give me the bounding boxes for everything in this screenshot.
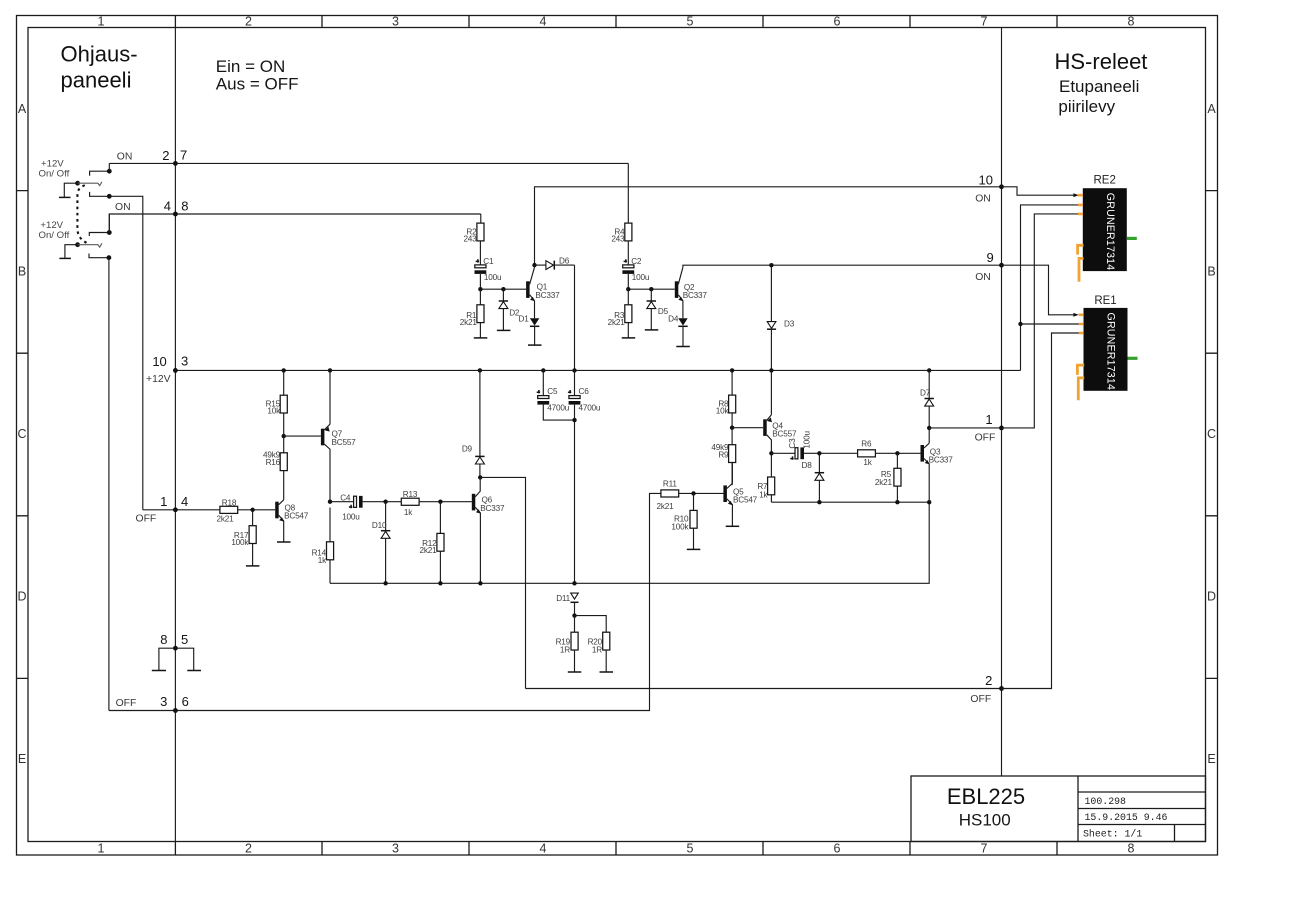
ground bar R17 (246, 565, 260, 567)
wire R2 top from net 4/8 (480, 214, 482, 223)
resistor R9 (729, 428, 736, 486)
junction net3/6 at connector (173, 708, 178, 713)
junction D5 tap (649, 287, 653, 291)
wire Q2 collector to net RE-ON-9 (683, 265, 1002, 267)
resistor R13 (386, 498, 472, 505)
diode D9 (475, 370, 484, 477)
transistor Q8 BC547 (275, 500, 284, 542)
svg-text:10k: 10k (267, 407, 281, 416)
junction rail C5 (541, 368, 545, 372)
switch S1 lower contact (90, 192, 110, 196)
svg-text:BC337: BC337 (480, 504, 505, 513)
transistor Q5 BC547 (723, 463, 732, 527)
resistor R12 (437, 502, 444, 584)
junction net10/3 at connector (173, 368, 178, 373)
svg-text:ON: ON (975, 272, 991, 283)
resistor R2 (477, 223, 484, 241)
svg-text:6: 6 (182, 694, 189, 709)
switch S1 blade tip tick (98, 182, 102, 186)
junction D3 on net 9 (769, 263, 773, 267)
diode D2 (499, 289, 508, 330)
svg-text:6: 6 (834, 15, 841, 29)
svg-text:Sheet: 1/1: Sheet: 1/1 (1083, 829, 1142, 840)
ground bar Q8 emitter (277, 541, 291, 543)
svg-text:8: 8 (160, 632, 167, 647)
svg-text:GRUNER17314: GRUNER17314 (1105, 313, 1117, 391)
transistor Q3 BC337 (921, 443, 930, 502)
svg-text:D10: D10 (372, 521, 387, 530)
wire Q1 collector up to net RE-ON-10 (535, 187, 1002, 267)
panel divider right (connector boundary) (1001, 28, 1003, 777)
svg-text:2k21: 2k21 (420, 546, 438, 555)
ground bar R10 (687, 548, 701, 550)
ground bar D5 (645, 329, 659, 331)
svg-text:R13: R13 (403, 490, 418, 499)
svg-text:3: 3 (392, 842, 399, 856)
junction rail R8 (730, 368, 734, 372)
capacitor C3 (771, 447, 819, 459)
svg-text:D: D (1207, 590, 1216, 604)
switch S1 blade (78, 182, 98, 184)
svg-text:1: 1 (985, 412, 992, 427)
svg-text:4: 4 (540, 15, 547, 29)
wire S2 lower contact down to net OFF-3/6 (108, 258, 110, 711)
junction rail D10 (383, 581, 387, 585)
relay RE2 body GRUNER17314 (1083, 188, 1127, 271)
switch S1 pole lead and ground (64, 183, 77, 197)
relay RE2 pin stubs (orange) (1078, 195, 1083, 214)
svg-text:4: 4 (164, 199, 171, 214)
junction rail D8 (817, 500, 821, 504)
junction Q4 collector / R7 / C3 (769, 451, 773, 455)
svg-text:3: 3 (392, 15, 399, 29)
net ON 4/8 wire (109, 214, 481, 233)
wire R2 to C1 (479, 241, 481, 265)
svg-text:BC547: BC547 (284, 512, 309, 521)
net GND 8/5 wire (159, 648, 194, 670)
svg-text:1k: 1k (318, 556, 327, 565)
transistor Q4 BC557 (PNP) (763, 370, 772, 453)
svg-text:7: 7 (180, 147, 187, 162)
junction C1/R1/base (478, 287, 482, 291)
net +12V 10/3 rail (175, 369, 1020, 371)
svg-text:100k: 100k (231, 538, 249, 547)
frame inner border (28, 28, 1206, 842)
wire net 10 to RE2 pin1 (1002, 187, 1077, 195)
svg-text:Etupaneeli: Etupaneeli (1059, 77, 1139, 96)
resistor R7 (768, 453, 775, 502)
wire S1 lower contact down to net OFF-1/4 (109, 196, 143, 510)
svg-text:Ein = ON: Ein = ON (216, 57, 285, 76)
diode D8 (815, 453, 824, 502)
junction S2 lower contact (107, 255, 112, 260)
wire C2 to base node Q2 (628, 274, 675, 289)
capacitor C5 (537, 370, 575, 420)
svg-text:BC557: BC557 (772, 430, 797, 439)
svg-text:BC337: BC337 (929, 456, 954, 465)
frame row ticks left (17, 191, 29, 679)
svg-text:4700u: 4700u (579, 403, 601, 412)
junction OFF-1 node (D7/Q3) (927, 426, 931, 430)
resistor R19 (571, 616, 578, 672)
wire +12V rail to RE2 pin2 / RE1 pin2 (1021, 205, 1081, 371)
svg-text:243: 243 (463, 235, 477, 244)
svg-text:R18: R18 (222, 498, 237, 507)
svg-text:2: 2 (245, 842, 252, 856)
svg-text:5: 5 (687, 842, 694, 856)
svg-text:1: 1 (98, 842, 105, 856)
svg-text:E: E (18, 752, 26, 766)
svg-text:1: 1 (98, 15, 105, 29)
ground bar R20 (600, 671, 614, 673)
ground bar D2 (497, 329, 511, 331)
title block box (911, 776, 1206, 842)
svg-text:8: 8 (1128, 15, 1135, 29)
relay RE2 coil hook upper (orange) (1078, 245, 1084, 254)
wire Q3 collector to OFF-1 node (928, 428, 930, 443)
transistor Q6 BC337 (472, 477, 481, 583)
resistor R14 (327, 508, 334, 584)
diode D1 (filled) (530, 318, 539, 345)
frame row letters left (17, 102, 26, 766)
wire C1 to base node Q1 (480, 274, 526, 289)
svg-text:10k: 10k (716, 407, 730, 416)
junction rail R12 (438, 581, 442, 585)
frame column ticks top (175, 16, 1057, 28)
svg-text:D5: D5 (658, 307, 669, 316)
svg-text:B: B (1207, 265, 1215, 279)
resistor R6 (819, 450, 920, 457)
wire D6 output down to +12V rail / C6 (574, 265, 576, 370)
wire branch RE1 pin2 (1021, 323, 1082, 325)
junction C2/R3/base (626, 287, 630, 291)
diode D10 (381, 502, 390, 584)
wire Q1 emitter to D1 (534, 301, 536, 319)
svg-text:100u: 100u (484, 273, 502, 282)
resistor R20 (575, 616, 610, 672)
junction rail R5 (895, 500, 899, 504)
svg-text:9: 9 (986, 250, 993, 265)
svg-text:243: 243 (611, 235, 625, 244)
resistor R8 (729, 370, 736, 427)
svg-text:D3: D3 (784, 320, 795, 329)
junction Q6 collector node (478, 475, 482, 479)
frame row ticks right (1206, 191, 1218, 679)
svg-text:1R: 1R (560, 646, 570, 655)
svg-text:A: A (18, 102, 27, 116)
svg-text:7: 7 (981, 842, 988, 856)
svg-text:10: 10 (979, 172, 993, 187)
svg-text:2: 2 (162, 148, 169, 163)
junction C4 node on Q7 collector line (328, 500, 332, 504)
svg-text:C6: C6 (579, 387, 590, 396)
svg-text:2k21: 2k21 (657, 502, 675, 511)
junction rail Q7 emitter (328, 368, 332, 372)
svg-text:4700u: 4700u (547, 403, 569, 412)
relay RE1 coil hook lower (orange) (1078, 378, 1084, 400)
svg-text:paneeli: paneeli (61, 67, 132, 92)
junction rail D11 branch (572, 581, 576, 585)
junction D10 tap (383, 500, 387, 504)
svg-text:+12V: +12V (146, 374, 171, 385)
svg-text:D7: D7 (920, 388, 931, 397)
frame column numbers top (98, 15, 1135, 29)
wire S1 upper contact to net ON-2/7 (108, 163, 110, 171)
junction net4/8 at connector (173, 212, 178, 217)
ground bar D1 (528, 344, 542, 346)
wire net 9 to RE1 pin1 (1002, 265, 1077, 315)
svg-text:D11: D11 (556, 594, 570, 603)
capacitor C6 (568, 370, 580, 583)
frame row letters right (1207, 102, 1216, 766)
wire Q4 base (732, 427, 763, 429)
resistor R3 (625, 305, 632, 323)
wire net OFF-1 to RE2 pin3 (1002, 214, 1081, 428)
junction D8 tap (817, 451, 821, 455)
junction rail D3/Q4 (769, 368, 773, 372)
switch S2 upper contact (89, 233, 109, 237)
wire S2 upper contact to net ON-4/8 (108, 214, 110, 233)
svg-text:piirilevy: piirilevy (1058, 97, 1115, 116)
svg-text:C: C (1207, 427, 1216, 441)
junction net2/7 at connector (173, 161, 178, 166)
svg-text:R9: R9 (718, 451, 729, 460)
svg-text:ON: ON (117, 151, 133, 162)
svg-text:D9: D9 (462, 444, 473, 453)
arrow RE1 pin1 (1073, 313, 1078, 317)
relay RE2 green pin (1127, 237, 1137, 240)
svg-text:8: 8 (181, 198, 188, 213)
relay RE1 body GRUNER17314 (1084, 308, 1128, 391)
svg-text:4: 4 (540, 842, 547, 856)
svg-text:100u: 100u (803, 431, 812, 449)
svg-text:R11: R11 (663, 479, 677, 488)
capacitor C2 (622, 259, 634, 274)
svg-text:5: 5 (181, 632, 188, 647)
frame column numbers bottom (98, 842, 1135, 856)
svg-text:10: 10 (152, 354, 166, 369)
ground bar D4 (676, 346, 690, 348)
junction C5/C6 bottoms (572, 418, 576, 422)
junction D2 tap (501, 287, 505, 291)
svg-text:C3: C3 (788, 438, 797, 449)
svg-text:2: 2 (985, 673, 992, 688)
resistor R17 (249, 510, 256, 566)
junction +12V branch RE1 pin2 (1018, 322, 1022, 326)
svg-text:BC337: BC337 (683, 291, 708, 300)
junction R8/R9/Q4 base (730, 426, 734, 430)
diode D7 (925, 370, 934, 428)
svg-text:A: A (1207, 102, 1216, 116)
ground bar R1 (474, 337, 488, 339)
junction net OFF-2 at divider (999, 686, 1004, 691)
resistor R15 (280, 370, 287, 436)
resistor R10 (690, 493, 697, 549)
net ON 2/7 wire (109, 162, 628, 164)
switch S2 blade tip tick (98, 243, 102, 247)
junction net8/5 at connector (173, 646, 178, 651)
svg-text:OFF: OFF (970, 694, 991, 705)
svg-text:HS-releet: HS-releet (1055, 49, 1148, 74)
wire Q2 emitter to D4 (682, 301, 684, 319)
svg-text:C2: C2 (631, 257, 642, 266)
svg-text:OFF: OFF (136, 513, 157, 524)
svg-text:2: 2 (245, 15, 252, 29)
ground bar R3 (622, 337, 636, 339)
svg-text:D: D (17, 590, 26, 604)
svg-text:C5: C5 (547, 387, 558, 396)
bottom common rail wire (330, 502, 929, 583)
resistor R18 (220, 506, 275, 513)
svg-text:B: B (18, 265, 26, 279)
junction net1/4 at connector (173, 507, 178, 512)
ground bar S1 pole (59, 196, 71, 198)
junction rail D9 (478, 368, 482, 372)
net ON 10 label/junction (999, 184, 1004, 189)
svg-text:R6: R6 (861, 440, 872, 449)
panel divider left (connector boundary) (174, 28, 176, 842)
resistor R16 (280, 436, 287, 500)
svg-text:ON: ON (975, 194, 991, 205)
switch S1 upper contact (90, 171, 110, 176)
wire net 2/7 drop to R4 (627, 163, 629, 223)
arrow RE2 pin1 (1073, 193, 1078, 197)
junction S2 pole (75, 242, 80, 247)
svg-text:100u: 100u (342, 512, 360, 521)
transistor Q1 BC337 (526, 267, 535, 301)
diode D4 (filled) (678, 318, 687, 346)
svg-text:8: 8 (1128, 842, 1135, 856)
mechanical link dashed S1-S2 (77, 185, 88, 244)
ground bar S2 pole (59, 257, 71, 259)
transistor Q2 BC337 (675, 267, 683, 301)
junction rail Q6 emitter (478, 581, 482, 585)
svg-text:7: 7 (981, 15, 988, 29)
svg-text:2k21: 2k21 (608, 318, 626, 327)
svg-text:100.298: 100.298 (1085, 796, 1127, 807)
svg-text:3: 3 (160, 694, 167, 709)
svg-text:RE2: RE2 (1094, 175, 1116, 187)
svg-text:1k: 1k (759, 490, 768, 499)
capacitor C4 (330, 496, 386, 508)
junction Q1 collector / D6 (532, 263, 536, 267)
wire Q6 collector node to OFF-2 drop (480, 477, 525, 688)
junction rail R15 (282, 368, 286, 372)
junction R19/R20 split (572, 613, 576, 617)
emitter rail of right block (771, 501, 929, 503)
wire R3 to ground (627, 323, 629, 338)
svg-text:2k21: 2k21 (875, 478, 893, 487)
wire Q7 base (284, 435, 321, 437)
junction S1 lower contact (107, 194, 112, 199)
wire R3 top (627, 289, 629, 305)
svg-text:3: 3 (181, 354, 188, 369)
resistor R4 (625, 223, 632, 241)
diode D5 (647, 289, 656, 330)
ground bar Q5 emitter (726, 525, 740, 527)
net OFF 3/6 wire (109, 493, 661, 710)
svg-text:C: C (17, 427, 26, 441)
relay RE2 coil hook lower (orange) (1079, 258, 1084, 281)
diode D3 (767, 265, 776, 370)
junction rail C6/D6 (572, 368, 576, 372)
svg-text:BC557: BC557 (332, 438, 357, 447)
net OFF 1 wire (929, 427, 1001, 429)
svg-text:On/ Off: On/ Off (39, 230, 70, 241)
junction R15/R16/Q7 base (282, 434, 286, 438)
net OFF 2 wire (526, 688, 1002, 690)
svg-text:BC547: BC547 (733, 496, 758, 505)
svg-text:ON: ON (115, 202, 131, 213)
wire net OFF-2 to RE1 pin3 (1002, 333, 1082, 689)
junction S2 upper contact (107, 230, 112, 235)
svg-text:5: 5 (687, 15, 694, 29)
capacitor C1 (475, 259, 487, 274)
svg-text:1k: 1k (863, 458, 872, 467)
svg-text:1: 1 (160, 494, 167, 509)
svg-text:GRUNER17314: GRUNER17314 (1104, 193, 1116, 271)
svg-text:D4: D4 (668, 314, 679, 323)
resistor R1 (477, 305, 484, 323)
junction S1 pole (75, 181, 80, 186)
junction R12 tap (438, 500, 442, 504)
svg-text:BC337: BC337 (535, 291, 560, 300)
svg-text:Aus = OFF: Aus = OFF (216, 74, 299, 93)
title block inner lines (1078, 776, 1206, 842)
junction R10 tap (691, 491, 695, 495)
svg-text:D1: D1 (519, 314, 530, 323)
frame column ticks bottom (175, 842, 1057, 856)
svg-text:Ohjaus-: Ohjaus- (61, 42, 138, 67)
svg-text:D6: D6 (559, 257, 570, 266)
svg-text:R16: R16 (266, 458, 281, 467)
svg-text:OFF: OFF (116, 698, 137, 709)
resistor R5 (894, 453, 901, 502)
switch S2 pole lead and ground (65, 245, 78, 258)
junction R17 tap (250, 508, 254, 512)
junction net OFF-1 at divider (999, 426, 1004, 431)
switch S2 blade (78, 244, 98, 246)
svg-text:100k: 100k (671, 522, 689, 531)
svg-text:E: E (1207, 752, 1215, 766)
ground bar R19 (568, 671, 582, 673)
junction rail D7 (927, 368, 931, 372)
relay RE1 green pin (1128, 357, 1138, 360)
svg-text:4: 4 (181, 494, 188, 509)
relay RE1 coil hook upper (orange) (1077, 365, 1084, 375)
svg-text:HS100: HS100 (959, 811, 1011, 830)
svg-text:OFF: OFF (975, 432, 996, 443)
svg-text:100u: 100u (632, 273, 650, 282)
svg-text:RE1: RE1 (1094, 295, 1116, 307)
svg-text:2k21: 2k21 (217, 515, 235, 524)
svg-text:1k: 1k (404, 508, 413, 517)
svg-text:1R: 1R (592, 646, 602, 655)
svg-text:C4: C4 (340, 494, 351, 503)
switch S2 lower contact (89, 254, 109, 258)
junction rail Q3 emitter corner (927, 500, 931, 504)
net OFF 1/4 wire (143, 509, 220, 511)
wire R1 to ground (479, 323, 481, 338)
svg-text:D8: D8 (802, 461, 813, 470)
relay RE1 pin stubs (orange) (1079, 315, 1084, 333)
ground bar 8/5 left (152, 670, 166, 672)
wire R4 to C2 (627, 241, 629, 265)
net ON 9 junction (999, 263, 1004, 268)
transistor Q7 BC557 (PNP) (321, 370, 330, 501)
junction R5 tap (895, 451, 899, 455)
ground bar 8/5 right (187, 670, 201, 672)
